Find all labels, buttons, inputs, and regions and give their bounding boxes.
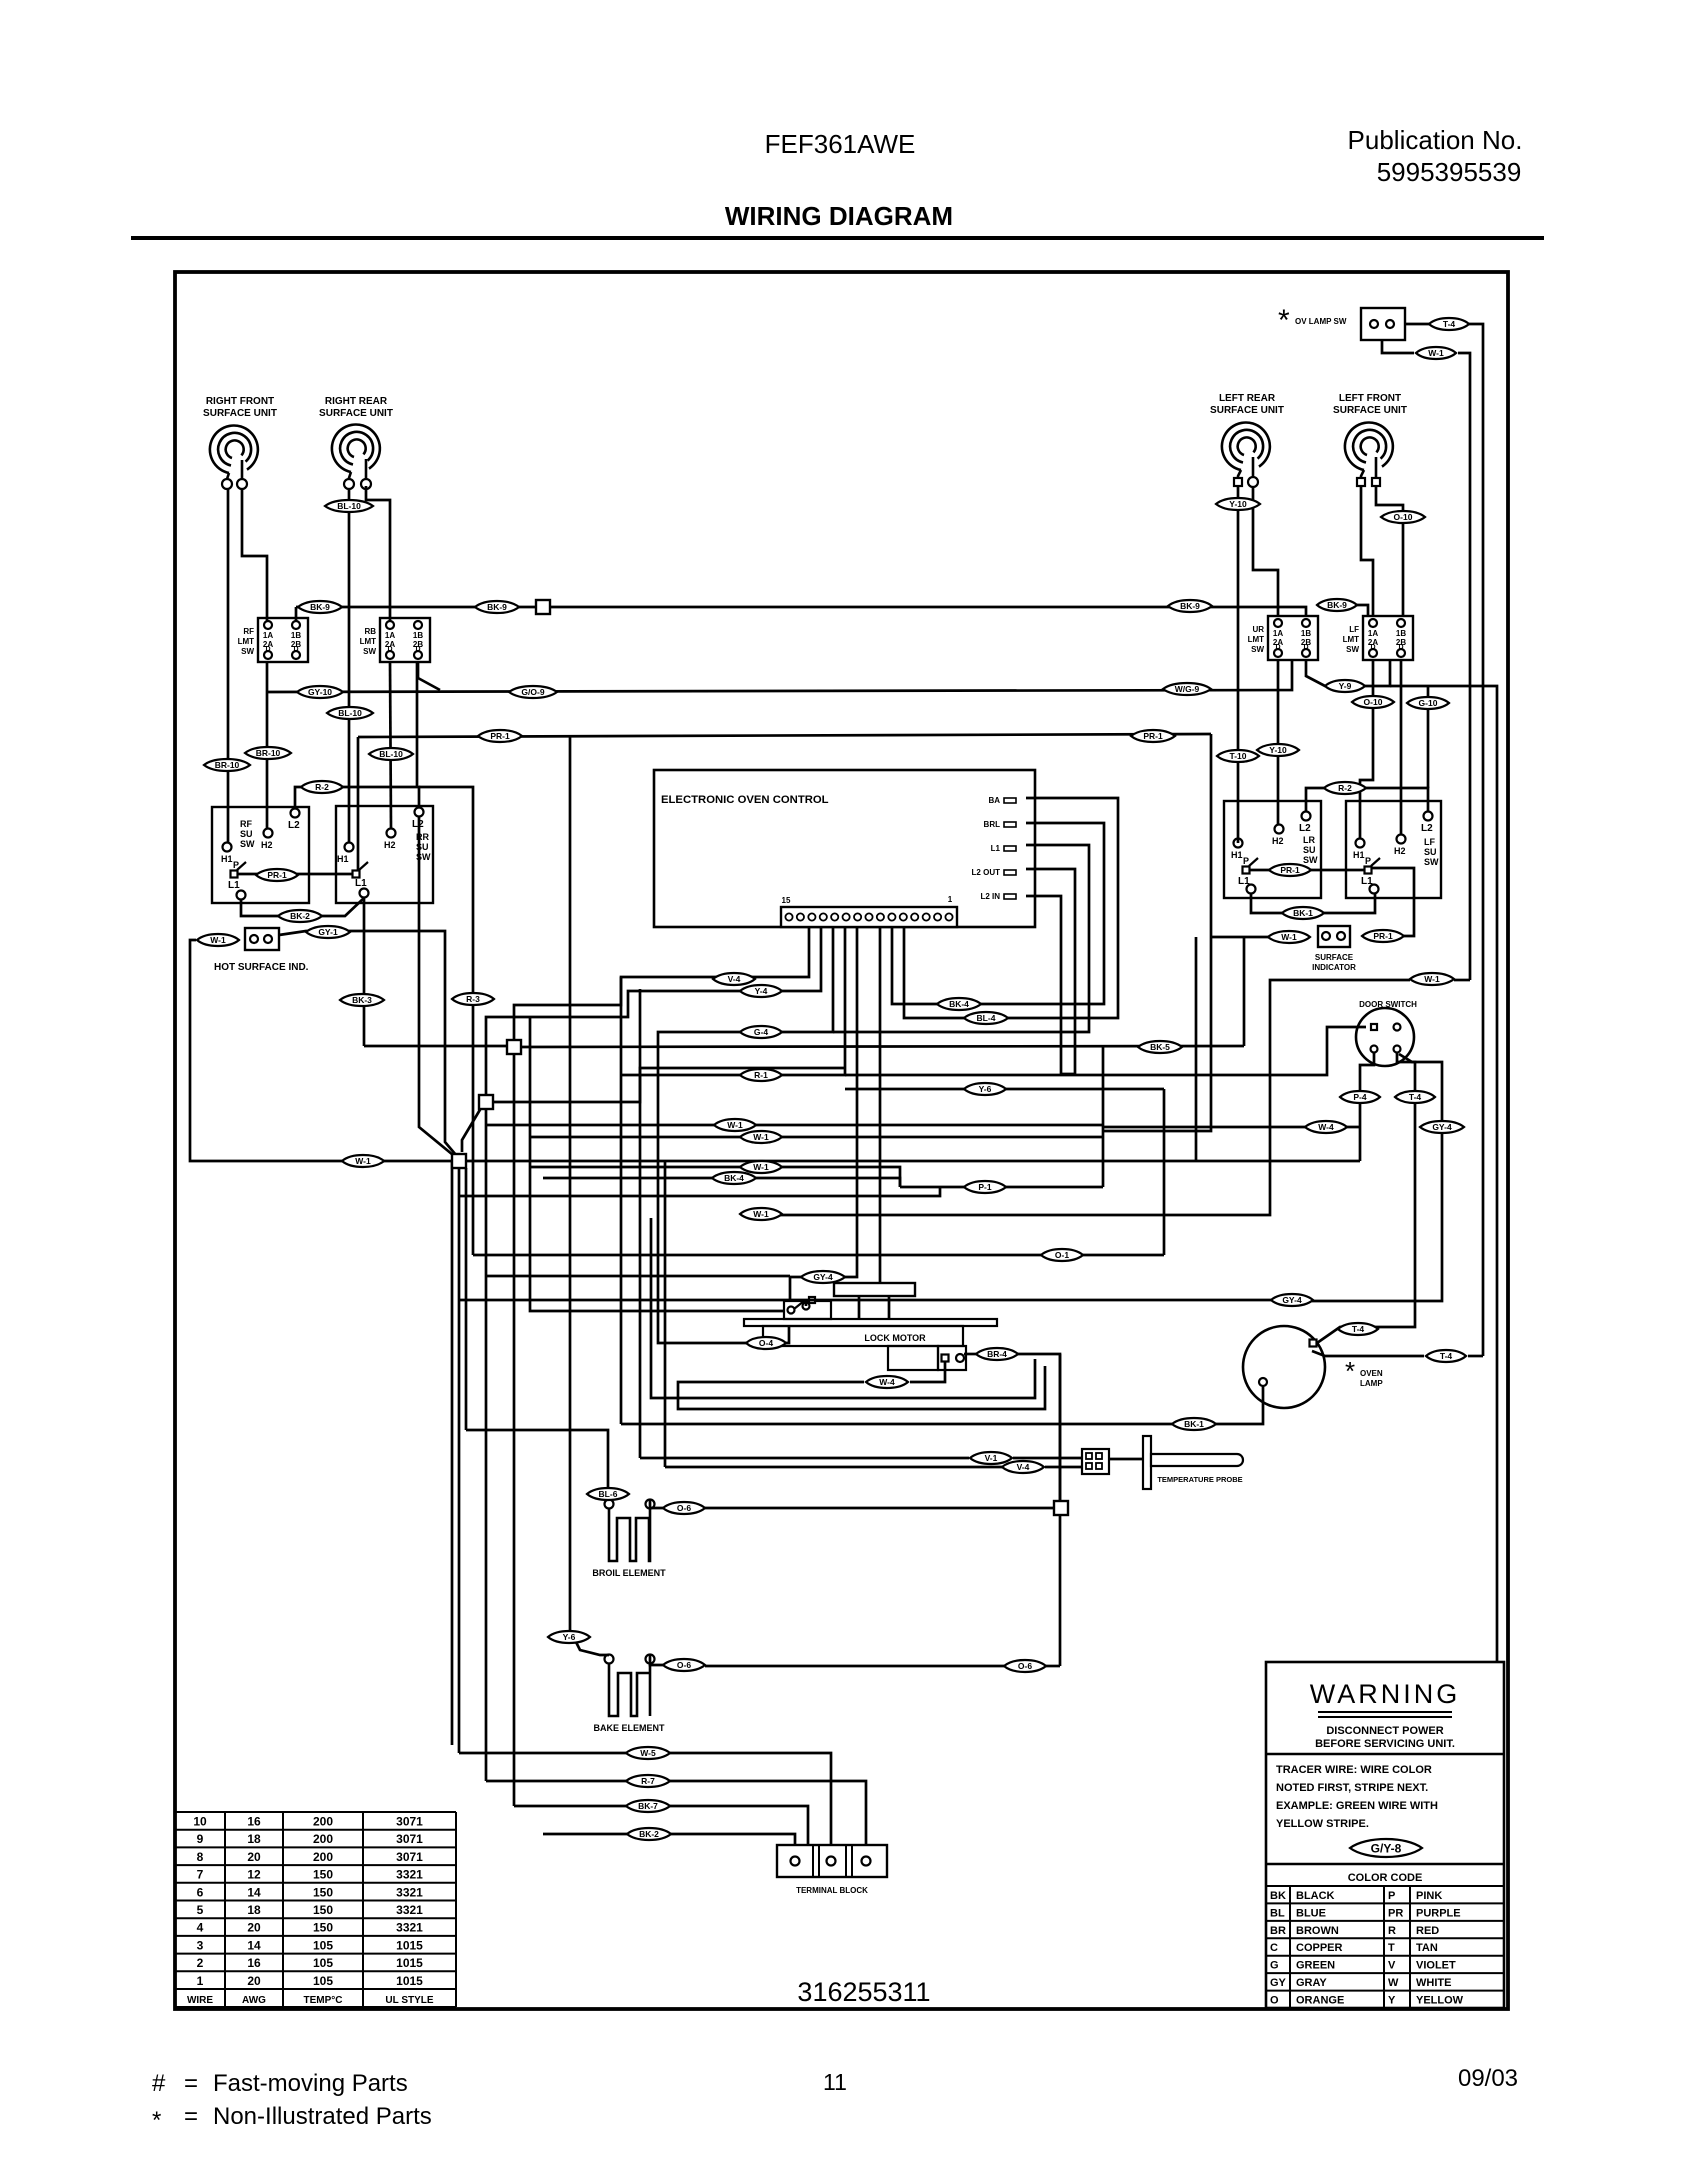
svg-text:Y-9: Y-9 bbox=[1339, 681, 1352, 691]
svg-text:5995395539: 5995395539 bbox=[1377, 157, 1522, 187]
wire W-1 bus y1137 bbox=[530, 1136, 1103, 1139]
svg-text:PR-1: PR-1 bbox=[267, 870, 287, 880]
svg-text:150: 150 bbox=[313, 1903, 333, 1917]
connector G/O-9 bbox=[509, 686, 557, 698]
svg-text:AWG: AWG bbox=[242, 1995, 266, 2006]
wire surface indicator W-1 left to PR riser bbox=[1211, 936, 1268, 939]
connector W/G-9 bbox=[1163, 683, 1211, 695]
wire right ladder vertical x1164 bbox=[1163, 1089, 1166, 1255]
svg-text:SW: SW bbox=[240, 839, 255, 849]
connector W-1 bbox=[342, 1155, 384, 1167]
svg-text:LOCK MOTOR: LOCK MOTOR bbox=[864, 1333, 926, 1343]
wire W-1 bus y1125 bbox=[486, 1124, 1103, 1127]
connector W-1 bbox=[1416, 347, 1456, 359]
connector W-1 bbox=[714, 1119, 756, 1131]
connector T-4 bbox=[1338, 1323, 1378, 1335]
svg-text:3: 3 bbox=[197, 1938, 204, 1952]
svg-text:TEMP°C: TEMP°C bbox=[304, 1995, 343, 2006]
svg-text:D: D bbox=[1398, 644, 1403, 651]
svg-text:*: * bbox=[1278, 304, 1290, 337]
connector Y-6 bbox=[964, 1083, 1006, 1095]
svg-text:W-1: W-1 bbox=[1428, 348, 1444, 358]
diagram border frame bbox=[175, 272, 1508, 2009]
svg-text:D: D bbox=[387, 646, 392, 653]
svg-text:SW: SW bbox=[363, 647, 376, 656]
connector V-1 bbox=[970, 1452, 1012, 1464]
svg-text:SURFACE: SURFACE bbox=[1315, 953, 1354, 962]
svg-text:PR-1: PR-1 bbox=[490, 731, 510, 741]
connector GY-10 bbox=[297, 686, 343, 698]
connector W-4 bbox=[866, 1376, 908, 1388]
svg-text:D: D bbox=[265, 646, 270, 653]
svg-text:LEFT REAR: LEFT REAR bbox=[1219, 393, 1276, 404]
svg-text:Y-4: Y-4 bbox=[755, 986, 768, 996]
svg-text:W-1: W-1 bbox=[1281, 932, 1297, 942]
connector PR-1 bbox=[1269, 864, 1311, 876]
connector O-1 bbox=[1041, 1249, 1083, 1261]
wire lock motor left contact line bbox=[530, 1017, 784, 1311]
wire door switch GY-4 lead down to lock motor bus bbox=[1312, 1054, 1442, 1301]
wire x665 vertical from W-1 bus bbox=[664, 1161, 667, 1467]
wire EOC drop pin R-1 bbox=[621, 927, 845, 1075]
svg-text:14: 14 bbox=[247, 1938, 261, 1952]
svg-text:LMT: LMT bbox=[1343, 635, 1360, 644]
connector Y-4 bbox=[740, 985, 782, 997]
wire BK-4 bus y1178 bbox=[543, 1178, 900, 1187]
svg-text:GRAY: GRAY bbox=[1296, 1977, 1327, 1989]
svg-text:SU: SU bbox=[1424, 847, 1437, 857]
UR limit switch bbox=[1268, 616, 1318, 660]
svg-text:RB: RB bbox=[364, 627, 376, 636]
svg-text:200: 200 bbox=[313, 1832, 333, 1846]
LR surface unit switch bbox=[1224, 801, 1321, 898]
svg-text:10: 10 bbox=[193, 1815, 207, 1829]
svg-text:VIOLET: VIOLET bbox=[1416, 1960, 1456, 1972]
svg-text:PR: PR bbox=[1388, 1907, 1403, 1919]
svg-text:150: 150 bbox=[313, 1921, 333, 1935]
svg-text:5: 5 bbox=[197, 1903, 204, 1917]
svg-text:V-4: V-4 bbox=[728, 974, 741, 984]
svg-text:O-6: O-6 bbox=[677, 1503, 691, 1513]
wire BK-5 bus bbox=[514, 1046, 1244, 1047]
svg-text:G/O-9: G/O-9 bbox=[521, 687, 544, 697]
svg-text:L1: L1 bbox=[1238, 876, 1250, 887]
svg-text:BK-9: BK-9 bbox=[1180, 601, 1200, 611]
svg-text:W-1: W-1 bbox=[210, 935, 226, 945]
lock motor bbox=[834, 1283, 915, 1296]
svg-text:9: 9 bbox=[197, 1832, 204, 1846]
svg-text:*: * bbox=[1345, 1356, 1355, 1386]
wire BR-4 lock motor right bbox=[964, 1353, 976, 1356]
wire right ladder vertical x1103 bbox=[1102, 1047, 1105, 1187]
svg-text:L1: L1 bbox=[991, 844, 1001, 853]
svg-text:D: D bbox=[293, 646, 298, 653]
wire J4 funnel left diagonal from RR L2 lead bbox=[419, 816, 453, 1155]
wire G-4 bus right to L1 tab bbox=[833, 845, 1089, 1032]
lock motor contact blade bbox=[794, 1301, 804, 1309]
wire OV LAMP SW T-4 to right side vertical bbox=[1405, 324, 1483, 1356]
wire LF coil left lead to LF LMT 1A bbox=[1361, 486, 1373, 616]
svg-text:P: P bbox=[1243, 856, 1249, 866]
connector BL-10 bbox=[369, 748, 413, 760]
svg-text:COLOR CODE: COLOR CODE bbox=[1348, 1872, 1423, 1884]
wire BK-3 bus into junction J2 bbox=[364, 1045, 507, 1048]
svg-text:18: 18 bbox=[247, 1903, 261, 1917]
svg-text:1: 1 bbox=[197, 1974, 204, 1988]
wire Y-6 bus bbox=[845, 1088, 1164, 1091]
connector W-1 bbox=[197, 934, 239, 946]
svg-text:Y: Y bbox=[1388, 1995, 1396, 2007]
junction J3 bbox=[479, 1095, 493, 1109]
svg-text:BROIL ELEMENT: BROIL ELEMENT bbox=[592, 1568, 666, 1578]
svg-text:T: T bbox=[1388, 1942, 1395, 1954]
wire W-4 lock motor bottom bbox=[910, 1362, 945, 1382]
wire door switch T-4 lead down to oven lamp bbox=[1317, 1053, 1415, 1343]
svg-text:3321: 3321 bbox=[396, 1921, 423, 1935]
wire RF coil left lead to H1 bbox=[227, 488, 230, 843]
svg-text:BA: BA bbox=[988, 796, 1000, 805]
svg-text:D: D bbox=[415, 646, 420, 653]
svg-text:WIRING DIAGRAM: WIRING DIAGRAM bbox=[725, 201, 953, 231]
connector BR-10 bbox=[245, 747, 291, 759]
svg-text:SW: SW bbox=[1303, 855, 1318, 865]
wire LR coil left lead down to H1 LR bbox=[1237, 486, 1240, 843]
svg-text:L2: L2 bbox=[288, 820, 300, 831]
svg-text:INDICATOR: INDICATOR bbox=[1312, 963, 1356, 972]
svg-text:TRACER WIRE: WIRE COLOR: TRACER WIRE: WIRE COLOR bbox=[1276, 1764, 1432, 1776]
wire R-1 bus extension to door switch bbox=[845, 1027, 1366, 1075]
connector O-6 bbox=[663, 1502, 705, 1514]
svg-text:W: W bbox=[1388, 1977, 1399, 1989]
wire W-1 long bus y1161 to door switch P-4 bbox=[466, 1160, 1360, 1163]
svg-text:PR-1: PR-1 bbox=[1143, 731, 1163, 741]
svg-text:RF: RF bbox=[240, 819, 252, 829]
svg-text:1B: 1B bbox=[1396, 629, 1406, 638]
svg-text:3321: 3321 bbox=[396, 1903, 423, 1917]
wire temperature probe V-4 lead bbox=[665, 1466, 1002, 1469]
svg-text:09/03: 09/03 bbox=[1458, 2065, 1518, 2092]
svg-text:SURFACE UNIT: SURFACE UNIT bbox=[1210, 405, 1284, 416]
warning and color code box bbox=[1266, 1662, 1504, 2008]
wire hot surface indicator W-1 left bbox=[190, 940, 453, 1161]
svg-text:200: 200 bbox=[313, 1850, 333, 1864]
connector BK-9 bbox=[1168, 600, 1212, 612]
svg-text:L2: L2 bbox=[1299, 823, 1311, 834]
wire PR-1 bus bbox=[358, 734, 1211, 737]
wire bottom W-5 run bbox=[459, 1752, 626, 1755]
svg-text:6: 6 bbox=[197, 1885, 204, 1899]
connector BK-4 bbox=[937, 998, 981, 1010]
wire PR riser to P of RR SU SW bbox=[357, 737, 360, 871]
wire temperature probe V-1 line bbox=[640, 1457, 969, 1460]
connector BL-6 bbox=[587, 1488, 629, 1500]
svg-text:R-2: R-2 bbox=[1338, 783, 1352, 793]
wire O-1 long bus bbox=[473, 1254, 1164, 1257]
wire broil element left feed bbox=[466, 1430, 608, 1500]
wire LF coil right lead via O-10 bbox=[1376, 486, 1403, 616]
svg-text:105: 105 bbox=[313, 1938, 333, 1952]
svg-text:7: 7 bbox=[197, 1868, 204, 1882]
svg-text:Publication No.: Publication No. bbox=[1348, 125, 1523, 155]
connector BK-9 bbox=[298, 601, 342, 613]
wire L1 RR down through BK-3 bbox=[363, 898, 366, 1046]
connector BK-3 bbox=[340, 994, 384, 1006]
connector BK-2 bbox=[627, 1828, 671, 1840]
svg-text:TERMINAL BLOCK: TERMINAL BLOCK bbox=[796, 1886, 868, 1895]
wire PR-1 link LR P to LF P bbox=[1250, 869, 1365, 872]
svg-text:LF: LF bbox=[1424, 837, 1435, 847]
svg-text:Y-10: Y-10 bbox=[1229, 499, 1247, 509]
svg-text:BLUE: BLUE bbox=[1296, 1907, 1326, 1919]
connector Y-9 bbox=[1325, 680, 1365, 692]
svg-text:GY: GY bbox=[1270, 1977, 1287, 1989]
wire oven lamp bottom to BK-1 bbox=[1216, 1386, 1263, 1424]
wire GY-4 lock motor bus to left bundle bbox=[459, 1299, 1272, 1302]
connector W-4 bbox=[1305, 1121, 1347, 1133]
wire P-1 long bus bbox=[900, 1186, 1103, 1189]
svg-text:H1: H1 bbox=[1231, 850, 1243, 860]
wire G-10 tap to right vertical bbox=[1390, 686, 1497, 1661]
svg-text:UL STYLE: UL STYLE bbox=[385, 1995, 433, 2006]
svg-text:G: G bbox=[1270, 1960, 1279, 1972]
wire hot surface indicator GY-1 right bbox=[279, 931, 456, 1155]
svg-text:=: = bbox=[184, 2103, 198, 2130]
svg-text:R-2: R-2 bbox=[315, 782, 329, 792]
wire gauge table bbox=[175, 1812, 456, 2007]
connector BK-5 bbox=[1138, 1041, 1182, 1053]
svg-text:LAMP: LAMP bbox=[1360, 1379, 1383, 1388]
svg-text:BK-1: BK-1 bbox=[1184, 1419, 1204, 1429]
svg-text:O-10: O-10 bbox=[1364, 697, 1383, 707]
svg-text:W-4: W-4 bbox=[879, 1377, 895, 1387]
connector BK-1 bbox=[1172, 1418, 1216, 1430]
svg-text:15: 15 bbox=[782, 896, 791, 905]
svg-text:H2: H2 bbox=[1394, 846, 1406, 856]
svg-text:H1: H1 bbox=[337, 854, 349, 864]
svg-text:4: 4 bbox=[197, 1921, 204, 1935]
connector Y-6 bbox=[548, 1631, 590, 1643]
connector BK-1 bbox=[1282, 907, 1324, 919]
surface indicator bbox=[1318, 926, 1350, 947]
svg-text:14: 14 bbox=[247, 1885, 261, 1899]
svg-text:O-6: O-6 bbox=[1018, 1661, 1032, 1671]
wire door switch P-4 lead bbox=[1360, 1053, 1374, 1161]
svg-text:O-10: O-10 bbox=[1394, 512, 1413, 522]
svg-text:BK-4: BK-4 bbox=[949, 999, 969, 1009]
svg-text:PR-1: PR-1 bbox=[1373, 931, 1393, 941]
svg-text:2: 2 bbox=[197, 1956, 204, 1970]
svg-text:=: = bbox=[184, 2070, 198, 2097]
wire EOC drop pin V-4 staircase bbox=[514, 927, 809, 1041]
svg-text:3071: 3071 bbox=[396, 1832, 423, 1846]
svg-text:W-1: W-1 bbox=[753, 1209, 769, 1219]
svg-text:1A: 1A bbox=[1368, 629, 1378, 638]
connector T-4 bbox=[1426, 1350, 1466, 1362]
connector BK-9 bbox=[1317, 599, 1357, 611]
wire W-1 right bus descend to y1215 bbox=[1454, 979, 1470, 982]
svg-text:LMT: LMT bbox=[1248, 635, 1265, 644]
wire PR riser right down to surface indicator bbox=[1103, 734, 1211, 1131]
svg-text:SW: SW bbox=[1251, 645, 1264, 654]
svg-text:LF: LF bbox=[1349, 625, 1359, 634]
svg-text:W-1: W-1 bbox=[355, 1156, 371, 1166]
svg-text:H2: H2 bbox=[384, 840, 396, 850]
svg-text:BEFORE SERVICING UNIT.: BEFORE SERVICING UNIT. bbox=[1315, 1738, 1455, 1750]
svg-text:316255311: 316255311 bbox=[797, 1977, 930, 2007]
svg-text:YELLOW STRIPE.: YELLOW STRIPE. bbox=[1276, 1818, 1369, 1830]
svg-text:P: P bbox=[1365, 856, 1371, 866]
connector R-2 bbox=[301, 781, 343, 793]
junction J4 X node bbox=[452, 1154, 466, 1168]
svg-text:11: 11 bbox=[823, 2069, 847, 2095]
wire RB coil right lead to RB LMT 1A bbox=[366, 486, 390, 621]
svg-text:NOTED FIRST, STRIPE NEXT.: NOTED FIRST, STRIPE NEXT. bbox=[1276, 1782, 1428, 1794]
svg-text:TAN: TAN bbox=[1416, 1942, 1438, 1954]
svg-text:BL-10: BL-10 bbox=[379, 749, 403, 759]
connector R-2 bbox=[1324, 782, 1366, 794]
svg-text:1015: 1015 bbox=[396, 1974, 423, 1988]
svg-text:W-5: W-5 bbox=[640, 1748, 656, 1758]
svg-text:1A: 1A bbox=[263, 631, 273, 640]
svg-text:BK-7: BK-7 bbox=[638, 1801, 658, 1811]
svg-text:BR-10: BR-10 bbox=[215, 760, 240, 770]
connector PR-1 bbox=[1131, 730, 1175, 742]
svg-text:BK-1: BK-1 bbox=[1293, 908, 1313, 918]
svg-text:16: 16 bbox=[247, 1815, 261, 1829]
svg-text:BK: BK bbox=[1270, 1890, 1286, 1902]
svg-text:W-1: W-1 bbox=[1424, 974, 1440, 984]
svg-text:DISCONNECT POWER: DISCONNECT POWER bbox=[1326, 1725, 1443, 1737]
svg-text:*: * bbox=[152, 2107, 161, 2134]
wire bottom BK-7 run bbox=[514, 1805, 626, 1808]
svg-text:BK-9: BK-9 bbox=[487, 602, 507, 612]
svg-text:3321: 3321 bbox=[396, 1868, 423, 1882]
wire x621 vertical staircase to BK-1 bus bbox=[620, 977, 623, 1424]
svg-text:P-4: P-4 bbox=[1353, 1092, 1367, 1102]
wire EOC drop pin Y-4 staircase bbox=[486, 927, 821, 1096]
svg-text:PR-1: PR-1 bbox=[1280, 865, 1300, 875]
connector R-1 bbox=[740, 1069, 782, 1081]
wire EOC drop pin BL-4 to BA tab bbox=[904, 798, 1118, 1018]
svg-text:3321: 3321 bbox=[396, 1885, 423, 1899]
svg-text:W-1: W-1 bbox=[753, 1162, 769, 1172]
svg-text:1B: 1B bbox=[413, 631, 423, 640]
svg-text:H1: H1 bbox=[1353, 850, 1365, 860]
wire GY-4 lock motor feed bbox=[486, 1275, 790, 1278]
wire BK-1 bus to left bbox=[621, 1423, 1172, 1426]
wire RB LMT 2A to H2 RR bbox=[390, 662, 391, 829]
svg-text:1A: 1A bbox=[385, 631, 395, 640]
svg-text:Y-10: Y-10 bbox=[1269, 745, 1287, 755]
svg-text:O: O bbox=[1270, 1995, 1279, 2007]
svg-text:PURPLE: PURPLE bbox=[1416, 1907, 1461, 1919]
svg-text:SU: SU bbox=[1303, 845, 1316, 855]
svg-text:HOT SURFACE IND.: HOT SURFACE IND. bbox=[214, 962, 309, 973]
wire UR LMT 2A down to LR H2 bbox=[1277, 661, 1280, 825]
svg-text:BK-9: BK-9 bbox=[1327, 600, 1347, 610]
wire OV LAMP SW W-1 lead bbox=[1382, 340, 1414, 353]
wire RB LMT 1B down to RR SU L2 bbox=[416, 662, 419, 787]
wire T-1 long bus bbox=[459, 1187, 940, 1196]
svg-text:L2 IN: L2 IN bbox=[980, 892, 1000, 901]
svg-text:8: 8 bbox=[197, 1850, 204, 1864]
connector T-10 bbox=[1217, 750, 1259, 762]
RR surface unit switch bbox=[336, 806, 433, 903]
terminal block bbox=[777, 1845, 887, 1877]
RF SU SW switch blade bbox=[237, 862, 246, 870]
connector Y-10 bbox=[1216, 498, 1260, 510]
svg-text:BK-4: BK-4 bbox=[724, 1173, 744, 1183]
connector P-4 bbox=[1340, 1091, 1380, 1103]
svg-text:BK-2: BK-2 bbox=[290, 911, 310, 921]
svg-text:W-4: W-4 bbox=[1318, 1122, 1334, 1132]
connector BK-9 bbox=[475, 601, 519, 613]
svg-text:O-1: O-1 bbox=[1055, 1250, 1069, 1260]
svg-text:#: # bbox=[152, 2070, 166, 2097]
svg-text:GY-10: GY-10 bbox=[308, 687, 332, 697]
svg-text:SURFACE UNIT: SURFACE UNIT bbox=[319, 408, 393, 419]
svg-text:BL-10: BL-10 bbox=[337, 501, 361, 511]
svg-text:SW: SW bbox=[241, 647, 254, 656]
svg-text:20: 20 bbox=[247, 1850, 261, 1864]
svg-text:T-4: T-4 bbox=[1352, 1324, 1365, 1334]
svg-text:BL-6: BL-6 bbox=[599, 1489, 618, 1499]
oven lamp bbox=[1243, 1326, 1325, 1408]
wire EOC drop pin G-4 down to O-4 lock motor line bbox=[658, 927, 833, 1343]
connector GY-4 bbox=[801, 1271, 845, 1283]
connector O-6 bbox=[663, 1659, 705, 1671]
electronic oven control EOC bbox=[654, 770, 1035, 927]
connector O-10 bbox=[1381, 511, 1425, 523]
wire J3 to R-1 ladder bbox=[493, 1068, 845, 1102]
RF limit switch bbox=[258, 618, 308, 662]
svg-text:WIRE: WIRE bbox=[187, 1995, 213, 2006]
wire LF LMT 2A to LF SU H1 via O-10 bbox=[1360, 661, 1373, 839]
wire oven lamp T-4 right lead to OV LAMP SW vertical bbox=[1312, 1351, 1424, 1356]
svg-text:Non-Illustrated Parts: Non-Illustrated Parts bbox=[213, 2103, 432, 2130]
wire R-2 link tap down R-3 bbox=[419, 787, 473, 1255]
svg-text:Y-6: Y-6 bbox=[979, 1084, 992, 1094]
connector PR-1 bbox=[1362, 930, 1404, 942]
svg-text:R: R bbox=[1388, 1925, 1396, 1937]
svg-text:RIGHT REAR: RIGHT REAR bbox=[325, 396, 388, 407]
svg-text:SW: SW bbox=[1346, 645, 1359, 654]
svg-text:P-1: P-1 bbox=[978, 1182, 992, 1192]
wire surface indicator PR right up to LF SU bbox=[1372, 868, 1414, 936]
broil element bbox=[605, 1500, 614, 1509]
connector GY-4 bbox=[1271, 1294, 1313, 1306]
temperature probe bbox=[1082, 1449, 1109, 1474]
connector BK-7 bbox=[626, 1800, 670, 1812]
connector BL-10 bbox=[325, 500, 373, 512]
wire RF LMT 2A to H2 bbox=[266, 662, 269, 829]
svg-text:FEF361AWE: FEF361AWE bbox=[765, 129, 916, 159]
LF SU SW switch blade bbox=[1371, 858, 1380, 866]
wire under lock motor loop bbox=[651, 1218, 1035, 1398]
connector PR-1 bbox=[256, 869, 298, 881]
svg-text:ELECTRONIC OVEN CONTROL: ELECTRONIC OVEN CONTROL bbox=[661, 794, 829, 806]
wire junction J3 down to R-7 turn bbox=[485, 1108, 488, 1781]
svg-text:BLACK: BLACK bbox=[1296, 1890, 1335, 1902]
svg-text:BL-4: BL-4 bbox=[977, 1013, 996, 1023]
svg-text:Fast-moving Parts: Fast-moving Parts bbox=[213, 2070, 408, 2097]
svg-text:GY-4: GY-4 bbox=[813, 1272, 833, 1282]
wire RF coil right lead to RF LMT 1A bbox=[242, 488, 267, 621]
svg-text:SW: SW bbox=[1424, 857, 1439, 867]
svg-text:SU: SU bbox=[240, 829, 253, 839]
junction J5 broil feed bbox=[1054, 1501, 1068, 1515]
wire LF LMT 2B to LF SU H2 bbox=[1400, 661, 1403, 835]
